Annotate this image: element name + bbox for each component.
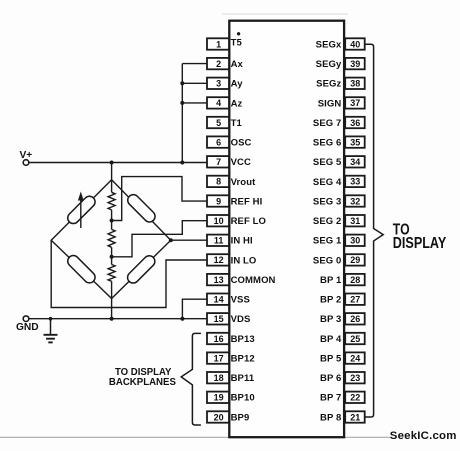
svg-text:SeekIC.com: SeekIC.com bbox=[390, 430, 457, 442]
svg-text:27: 27 bbox=[350, 295, 360, 305]
pin 21 box bbox=[345, 411, 365, 422]
svg-text:2: 2 bbox=[216, 59, 221, 69]
pin 35 box bbox=[345, 136, 365, 147]
pin 1 indicator dot bbox=[237, 32, 240, 35]
svg-text:18: 18 bbox=[214, 373, 224, 383]
pin 6 box bbox=[207, 136, 229, 147]
node tap1 bbox=[110, 219, 114, 223]
svg-text:IN HI: IN HI bbox=[231, 236, 253, 247]
svg-text:BP13: BP13 bbox=[231, 334, 255, 345]
pin 32 box bbox=[345, 195, 365, 206]
svg-text:REF HI: REF HI bbox=[231, 196, 263, 207]
svg-text:23: 23 bbox=[350, 373, 360, 383]
pin 5 box bbox=[207, 117, 229, 128]
svg-text:BP 7: BP 7 bbox=[320, 393, 341, 404]
resistor R2 (middle divider) bbox=[108, 229, 115, 247]
svg-text:VDS: VDS bbox=[231, 314, 251, 325]
pin 17 box bbox=[207, 352, 229, 363]
svg-text:BP9: BP9 bbox=[231, 412, 250, 423]
pin 1 box bbox=[207, 38, 229, 49]
svg-text:BP 3: BP 3 bbox=[320, 314, 341, 325]
svg-text:BP 5: BP 5 bbox=[320, 354, 342, 365]
pin 3 box bbox=[207, 78, 229, 89]
svg-text:Ay: Ay bbox=[231, 79, 244, 90]
svg-text:29: 29 bbox=[350, 255, 360, 265]
pin 26 box bbox=[345, 313, 365, 324]
wire pin4 Az bbox=[182, 102, 207, 104]
pin 16 box bbox=[207, 333, 229, 344]
wire bridge diamond arms bbox=[51, 180, 171, 299]
svg-text:25: 25 bbox=[350, 334, 360, 344]
pin 4 box bbox=[207, 97, 229, 108]
svg-text:BP12: BP12 bbox=[231, 354, 255, 365]
node V+/bridge-top junction bbox=[110, 161, 114, 165]
svg-text:33: 33 bbox=[350, 177, 360, 187]
ground bbox=[50, 319, 52, 335]
strain gauge G3 (bottom-left arm) bbox=[65, 253, 97, 285]
svg-text:V+: V+ bbox=[20, 150, 33, 161]
wire display bracket (pins 40-21) bbox=[365, 44, 383, 417]
svg-text:21: 21 bbox=[350, 412, 360, 422]
svg-text:1: 1 bbox=[216, 39, 221, 49]
svg-text:BACKPLANES: BACKPLANES bbox=[109, 377, 176, 388]
wire Ax/Ay/Az bus vertical bbox=[181, 64, 183, 163]
pin 18 box bbox=[207, 372, 229, 383]
pin 9 box bbox=[207, 195, 229, 206]
svg-text:SEG 1: SEG 1 bbox=[313, 236, 342, 247]
pin 22 box bbox=[345, 392, 365, 403]
pin 28 box bbox=[345, 274, 365, 285]
svg-text:3: 3 bbox=[216, 79, 221, 89]
pin 27 box bbox=[345, 294, 365, 305]
svg-text:SEG 3: SEG 3 bbox=[313, 196, 342, 207]
svg-text:17: 17 bbox=[214, 353, 224, 363]
svg-text:T1: T1 bbox=[231, 118, 243, 129]
pin 37 box bbox=[345, 97, 365, 108]
svg-text:SIGN: SIGN bbox=[318, 98, 342, 109]
svg-text:Vrout: Vrout bbox=[231, 177, 257, 188]
pin 7 box bbox=[207, 156, 229, 167]
svg-text:Ax: Ax bbox=[231, 59, 244, 70]
pin 40 box bbox=[345, 38, 365, 49]
wire pin3 Ay bbox=[182, 82, 207, 84]
svg-text:GND: GND bbox=[16, 322, 39, 333]
svg-text:SEG 5: SEG 5 bbox=[313, 157, 342, 168]
svg-text:COMMON: COMMON bbox=[231, 275, 276, 286]
svg-text:BP 8: BP 8 bbox=[320, 412, 341, 423]
pin 2 box bbox=[207, 58, 229, 69]
svg-text:35: 35 bbox=[350, 137, 360, 147]
resistor R1 (top divider) bbox=[111, 180, 113, 193]
svg-text:SEGx: SEGx bbox=[316, 39, 342, 50]
node bridge-bottom/ground junction bbox=[110, 317, 114, 321]
node VSS/ground-rail junction bbox=[180, 317, 184, 321]
wire VSS (pin14) down to ground rail bbox=[182, 299, 207, 319]
strain gauge G1 (top-left arm, variable) bbox=[65, 194, 97, 226]
pin 8 box bbox=[207, 176, 229, 187]
node bridge right vertex bbox=[169, 238, 173, 242]
svg-text:5: 5 bbox=[216, 118, 221, 128]
wire faint top rule bbox=[222, 13, 348, 15]
pin 23 box bbox=[345, 372, 365, 383]
wire backplane bracket (pins 16-20) bbox=[181, 333, 201, 425]
pin 39 box bbox=[345, 58, 365, 69]
pin 29 box bbox=[345, 254, 365, 265]
svg-text:Az: Az bbox=[231, 98, 243, 109]
svg-text:BP11: BP11 bbox=[231, 373, 255, 384]
svg-text:15: 15 bbox=[214, 314, 224, 324]
svg-text:37: 37 bbox=[350, 98, 360, 108]
svg-text:40: 40 bbox=[350, 39, 360, 49]
svg-text:32: 32 bbox=[350, 196, 360, 206]
svg-text:SEG 6: SEG 6 bbox=[313, 138, 342, 149]
wire IN HI (pin11) to bridge right vertex bbox=[171, 239, 208, 241]
svg-text:34: 34 bbox=[350, 157, 360, 167]
svg-text:12: 12 bbox=[214, 255, 224, 265]
svg-text:10: 10 bbox=[214, 216, 224, 226]
svg-text:16: 16 bbox=[214, 334, 224, 344]
svg-text:8: 8 bbox=[216, 177, 221, 187]
svg-text:9: 9 bbox=[216, 196, 221, 206]
pin 19 box bbox=[207, 392, 229, 403]
svg-text:11: 11 bbox=[214, 236, 224, 246]
wire bridge top drop bbox=[111, 163, 113, 180]
svg-text:13: 13 bbox=[214, 275, 224, 285]
wire variable-gauge arrow bbox=[80, 199, 82, 229]
svg-text:T5: T5 bbox=[231, 38, 243, 49]
svg-text:REF LO: REF LO bbox=[231, 216, 266, 227]
wire faint bottom rule bbox=[0, 436, 390, 438]
wire IN LO (pin12) to bridge left vertex bbox=[51, 240, 207, 307]
svg-text:38: 38 bbox=[350, 79, 360, 89]
svg-text:SEG 7: SEG 7 bbox=[313, 118, 342, 129]
node V+/bus junction bbox=[180, 161, 184, 165]
svg-text:7: 7 bbox=[216, 157, 221, 167]
svg-text:VSS: VSS bbox=[231, 295, 250, 306]
pin 33 box bbox=[345, 176, 365, 187]
pin 34 box bbox=[345, 156, 365, 167]
pin 30 box bbox=[345, 235, 365, 246]
svg-text:SEGy: SEGy bbox=[316, 59, 342, 70]
svg-text:BP 1: BP 1 bbox=[320, 275, 342, 286]
pin 20 box bbox=[207, 411, 229, 422]
pin 38 box bbox=[345, 78, 365, 89]
pin 31 box bbox=[345, 215, 365, 226]
wire REF HI (pin9) to divider tap1 bbox=[112, 177, 208, 221]
pin 15 box bbox=[207, 313, 229, 324]
svg-text:24: 24 bbox=[350, 353, 360, 363]
svg-text:IN LO: IN LO bbox=[231, 255, 257, 266]
node bus-Az junction bbox=[180, 101, 184, 105]
svg-text:DISPLAY: DISPLAY bbox=[393, 235, 447, 252]
op-amp U1 (40-pin ADC/display-driver IC body) bbox=[229, 21, 344, 438]
pin 11 box bbox=[207, 235, 229, 246]
terminal V+ bbox=[23, 160, 29, 166]
svg-text:36: 36 bbox=[350, 118, 360, 128]
terminal GND bbox=[23, 316, 29, 322]
svg-text:SEG 0: SEG 0 bbox=[313, 255, 342, 266]
svg-text:SEG 2: SEG 2 bbox=[313, 216, 342, 227]
svg-text:SEG 4: SEG 4 bbox=[313, 177, 342, 188]
strain gauge G4 (bottom-right arm) bbox=[125, 253, 157, 285]
svg-text:19: 19 bbox=[214, 393, 224, 403]
resistor R3 (bottom divider) bbox=[108, 265, 115, 282]
wire REF LO (pin10) to divider tap2 bbox=[112, 221, 208, 257]
wire bridge bottom drop to ground rail bbox=[111, 299, 113, 319]
svg-text:BP10: BP10 bbox=[231, 393, 255, 404]
pin 13 box bbox=[207, 274, 229, 285]
wire GND rail to pin15 VDS bbox=[29, 318, 208, 320]
svg-text:28: 28 bbox=[350, 275, 360, 285]
svg-text:26: 26 bbox=[350, 314, 360, 324]
node bus-Ay junction bbox=[180, 81, 184, 85]
pin 24 box bbox=[345, 352, 365, 363]
svg-text:39: 39 bbox=[350, 59, 360, 69]
svg-text:4: 4 bbox=[216, 98, 221, 108]
pin 36 box bbox=[345, 117, 365, 128]
pin 25 box bbox=[345, 333, 365, 344]
wire V+ rail to pin7 VCC bbox=[29, 162, 208, 164]
svg-text:BP 6: BP 6 bbox=[320, 373, 341, 384]
svg-text:14: 14 bbox=[214, 295, 224, 305]
svg-text:6: 6 bbox=[216, 137, 221, 147]
node ground-symbol junction bbox=[49, 317, 53, 321]
svg-text:OSC: OSC bbox=[231, 138, 252, 149]
pin 10 box bbox=[207, 215, 229, 226]
svg-text:31: 31 bbox=[350, 216, 360, 226]
svg-text:SEGz: SEGz bbox=[316, 79, 341, 90]
svg-text:BP 2: BP 2 bbox=[320, 295, 341, 306]
node tap2 bbox=[110, 255, 114, 259]
pin 14 box bbox=[207, 294, 229, 305]
svg-text:VCC: VCC bbox=[231, 157, 251, 168]
svg-text:20: 20 bbox=[214, 412, 224, 422]
strain gauge G2 (top-right arm) bbox=[125, 192, 157, 224]
svg-text:30: 30 bbox=[350, 236, 360, 246]
pin 12 box bbox=[207, 254, 229, 265]
svg-text:BP 4: BP 4 bbox=[320, 334, 342, 345]
svg-text:22: 22 bbox=[350, 393, 360, 403]
wire pin2 Ax bbox=[182, 63, 207, 65]
